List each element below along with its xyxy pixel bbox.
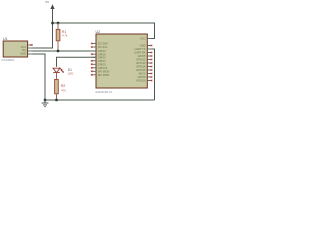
wire D1 branch top y57.3 to U2: [57, 57, 97, 67]
pin U2 left GPIO16: [92, 67, 96, 69]
svg-text:SPI MOSI: SPI MOSI: [98, 69, 110, 73]
pin U2 left I2C SDA: [92, 43, 96, 45]
svg-text:GPIO3: GPIO3: [98, 62, 106, 66]
pin U2 right ADC0: [147, 73, 151, 75]
pin U1.1 NC stub: [28, 44, 33, 46]
LED D1 symbol: [53, 68, 60, 72]
power symbol arrow: [50, 4, 54, 9]
pin U1.1 unconnected mark: [31, 44, 33, 46]
svg-text:UART TX: UART TX: [135, 47, 146, 51]
resistor R1 body: [56, 29, 60, 40]
svg-text:SPI MISO: SPI MISO: [98, 73, 110, 77]
pin U2 left SPI MISO: [92, 74, 96, 76]
svg-text:GPIO15: GPIO15: [136, 68, 146, 72]
pin U2 left GPIO4 connected: [92, 50, 96, 52]
node junction gnd / R2: [55, 99, 57, 101]
svg-text:GPIO14: GPIO14: [136, 65, 146, 69]
svg-text:U2: U2: [96, 30, 101, 34]
pin U2 right GPIO9: [147, 76, 151, 78]
svg-text:4.7k: 4.7k: [62, 34, 68, 38]
pin U2 left GPIO3: [92, 63, 96, 65]
svg-text:GPIO2: GPIO2: [98, 55, 106, 59]
svg-text:I2C SDA: I2C SDA: [98, 42, 108, 46]
LED D1 emission arrows: [59, 68, 63, 73]
pin U2 right UART RX: [147, 52, 151, 54]
ground symbol: [42, 100, 49, 107]
pin U2 right GND: [147, 45, 151, 47]
svg-text:5V: 5V: [46, 0, 50, 4]
pin U2 left GPIO0: [92, 53, 96, 55]
svg-text:GPIO10: GPIO10: [136, 79, 146, 83]
resistor R1 top lead: [57, 23, 59, 29]
svg-text:I2C SCL: I2C SCL: [98, 45, 108, 49]
wire ground rail y100: [45, 99, 155, 101]
node junction gnd / U1 branch: [44, 99, 46, 101]
pin U2 right GPIO14: [147, 66, 151, 68]
pin U2 left GPIO1: [92, 60, 96, 62]
svg-text:VCC: VCC: [140, 37, 146, 41]
wire power rail y23: [52, 22, 155, 24]
pin U2 right GPIO15: [147, 69, 151, 71]
component U1 body: [3, 41, 27, 57]
node junction power rail / stem: [51, 22, 53, 24]
svg-text:U1: U1: [3, 37, 8, 41]
svg-text:GND: GND: [140, 44, 146, 48]
wire power stem x52.5 from arrow down to U1 VCC row: [52, 9, 54, 48]
IC U2 body: [96, 34, 147, 88]
svg-text:ADC0: ADC0: [139, 72, 146, 76]
wire VCC drop to U2 x154.5: [151, 23, 154, 39]
resistor R2 body: [55, 79, 59, 93]
svg-text:DS18B20: DS18B20: [2, 58, 15, 62]
resistor R1 bottom lead: [57, 41, 59, 51]
pin U2 right GPIO10: [147, 80, 151, 82]
wire D1 cathode to R2: [56, 73, 58, 80]
svg-text:GPIO13: GPIO13: [136, 61, 146, 65]
pin U2 right GPIO12: [147, 59, 151, 61]
svg-text:UART RX: UART RX: [134, 51, 146, 55]
wire U1 DQ row y51 to U2: [33, 50, 97, 52]
pin U2 left GPIO2 connected: [92, 56, 96, 58]
pin U2 left SPI MOSI: [92, 70, 96, 72]
pin U2 right UART TX connected: [147, 48, 151, 50]
pin U1.2 VCC: [28, 47, 33, 49]
pin U2 left I2C SCL: [92, 46, 96, 48]
pin U1.4 GND: [28, 53, 33, 55]
node junction power rail / R1: [57, 22, 59, 24]
svg-text:GPIO16: GPIO16: [98, 66, 108, 70]
svg-text:GPIO12: GPIO12: [136, 58, 146, 62]
svg-text:GPIO9: GPIO9: [138, 75, 146, 79]
pin U2 right VCC connected: [147, 38, 151, 40]
svg-text:GPIO5: GPIO5: [138, 54, 146, 58]
svg-text:ESP8266-01: ESP8266-01: [96, 90, 113, 94]
pin U2 right GPIO5: [147, 55, 151, 57]
svg-text:LED: LED: [68, 72, 73, 76]
pin U2 right GPIO13: [147, 62, 151, 64]
node junction R1 / DQ wire: [57, 50, 59, 52]
svg-text:470: 470: [61, 88, 66, 92]
svg-text:GPIO1: GPIO1: [98, 59, 106, 63]
resistor R2 bottom lead: [56, 94, 58, 100]
wire U1 VCC to power stem y48: [33, 47, 54, 49]
wire U2 GND pin to right rail: [151, 49, 154, 100]
pin U1.3 DQ: [28, 50, 33, 52]
svg-text:GND: GND: [20, 51, 26, 55]
wire U1 GND right then down x45: [33, 54, 46, 100]
